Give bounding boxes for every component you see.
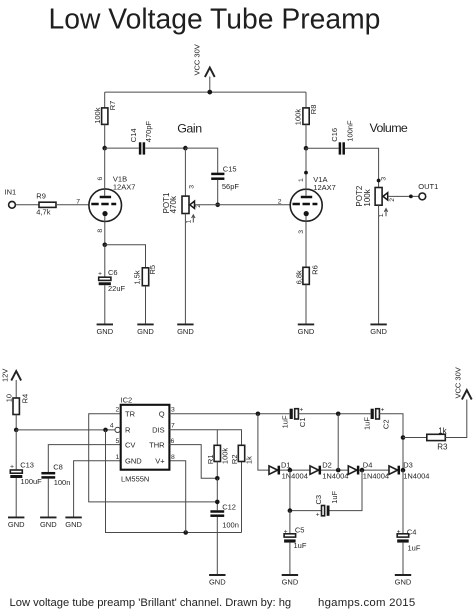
junction 12V node <box>14 428 19 433</box>
svg-text:GND: GND <box>40 520 57 529</box>
svg-text:1uF: 1uF <box>362 417 371 430</box>
svg-text:hgamps.com 2015: hgamps.com 2015 <box>318 597 415 609</box>
svg-text:C12: C12 <box>222 502 236 511</box>
diode D3 1N4004 <box>389 460 429 480</box>
svg-text:GND: GND <box>298 327 315 336</box>
wire R3 left <box>403 437 427 439</box>
svg-text:1: 1 <box>116 454 120 461</box>
connector IN1 <box>5 188 17 209</box>
wire C16 to POT2 <box>345 148 379 187</box>
resistor R1 100k <box>206 445 230 464</box>
wire IN1 to R9 <box>16 204 39 206</box>
svg-text:GND: GND <box>177 327 194 336</box>
junction V+ rail <box>183 530 188 535</box>
svg-text:+: + <box>300 407 304 414</box>
svg-text:5: 5 <box>116 438 120 445</box>
capacitor C2 1uF electrolytic <box>362 407 390 431</box>
power VCC 30V (output) <box>454 367 472 399</box>
svg-text:6,8k: 6,8k <box>294 270 303 284</box>
capacitor C4 1uF electrolytic <box>397 527 421 552</box>
svg-text:V+: V+ <box>155 457 165 466</box>
svg-text:100k: 100k <box>294 109 303 126</box>
wire R3 to VCC 30V <box>445 400 467 438</box>
svg-text:R1: R1 <box>206 455 215 465</box>
svg-text:LM555N: LM555N <box>121 474 149 483</box>
capacitor C16 100nF <box>330 120 354 155</box>
svg-text:12V: 12V <box>0 369 9 382</box>
junction wiper/OUT1 <box>409 195 413 199</box>
wire R1 top tap <box>216 430 218 446</box>
wire 12V node to reset pin <box>16 429 115 431</box>
wire Q pin 3 output <box>169 413 289 415</box>
wire Q node down to D1 <box>258 414 269 470</box>
svg-text:1,5k: 1,5k <box>132 270 141 284</box>
resistor R5 1,5k <box>132 265 156 286</box>
svg-text:1uF: 1uF <box>294 541 307 550</box>
svg-text:1: 1 <box>185 220 192 224</box>
wire node to C16 <box>306 147 339 149</box>
power 12V <box>0 369 21 398</box>
wire CV pin to C8 <box>48 445 120 472</box>
resistor R8 100k <box>294 92 318 125</box>
wire POT2 wiper to OUT1 <box>388 195 419 197</box>
wire V1A cathode to R6 <box>305 216 307 267</box>
ground (C4) <box>395 575 412 586</box>
wire cathode node to R5 <box>105 245 146 268</box>
resistor R6 6,8k <box>294 265 319 284</box>
svg-text:GND: GND <box>395 577 412 586</box>
svg-text:100n: 100n <box>54 478 71 487</box>
wire V1B cathode down <box>104 216 106 245</box>
svg-text:10: 10 <box>5 394 14 402</box>
junction cathode node <box>103 243 108 248</box>
capacitor C13 100uF electrolytic <box>10 461 42 486</box>
junction R7/C14/plate node <box>102 146 107 151</box>
svg-text:12AX7: 12AX7 <box>113 183 136 192</box>
svg-text:3: 3 <box>189 185 196 189</box>
wire C12 to GND <box>216 517 218 575</box>
svg-text:C16: C16 <box>330 128 339 142</box>
svg-text:THR: THR <box>149 440 165 449</box>
svg-text:100k: 100k <box>363 188 372 206</box>
wire D1 to D2 <box>280 469 310 471</box>
wire C1 to C2 <box>298 413 370 415</box>
svg-text:VCC 30V: VCC 30V <box>193 44 202 75</box>
diode D4 1N4004 <box>348 460 389 480</box>
svg-text:Volume: Volume <box>370 121 408 135</box>
wire R5 to GND <box>145 286 147 325</box>
svg-text:DIS: DIS <box>152 426 165 435</box>
wire C4 to GND <box>402 543 404 575</box>
svg-text:7: 7 <box>76 199 80 206</box>
wire R2 bottom to rail <box>241 462 243 533</box>
svg-text:+: + <box>284 529 288 536</box>
wire down to C12 node <box>216 478 218 510</box>
wire POT1 wiper to V1A grid <box>195 204 291 206</box>
svg-text:R9: R9 <box>36 191 46 200</box>
svg-text:C3: C3 <box>314 495 323 505</box>
wire POT1 bottom to GND <box>184 214 186 325</box>
svg-text:100n: 100n <box>222 521 239 530</box>
svg-text:2: 2 <box>116 407 120 414</box>
svg-text:Gain: Gain <box>177 122 202 136</box>
wire TR pin 2 to C12 node <box>89 414 218 502</box>
wire R7 to V1B plate <box>104 124 106 148</box>
wire node to C15 branch <box>185 148 217 173</box>
power VCC 30V (top) <box>193 44 215 94</box>
svg-text:6: 6 <box>97 177 104 181</box>
potentiometer POT1 470k <box>162 185 202 224</box>
wire R6 to GND <box>305 284 307 324</box>
svg-text:470k: 470k <box>169 195 178 213</box>
wire R8 to V1A plate <box>305 124 307 148</box>
capacitor C6 22uF electrolytic <box>98 268 125 293</box>
ground (POT2) <box>370 324 387 335</box>
svg-text:7: 7 <box>171 423 175 430</box>
wire D1/D2 node down to C3 <box>290 470 322 510</box>
wire C14 to gain pot node <box>145 147 185 149</box>
svg-text:GND: GND <box>65 520 82 529</box>
svg-text:R3: R3 <box>437 443 448 452</box>
svg-text:3: 3 <box>298 230 305 234</box>
svg-text:D2: D2 <box>322 460 332 469</box>
svg-text:2: 2 <box>389 198 396 202</box>
wire cathode node to C6 <box>104 245 106 277</box>
svg-text:R: R <box>125 426 131 435</box>
svg-text:1N4004: 1N4004 <box>322 471 348 480</box>
svg-text:R4: R4 <box>20 394 29 404</box>
junction D3/C4 node <box>401 468 406 473</box>
svg-text:R7: R7 <box>108 101 117 111</box>
wire R4 to 12V node <box>15 415 17 430</box>
wire C5 feed <box>289 511 291 534</box>
svg-text:100k: 100k <box>93 107 102 124</box>
capacitor C1 1uF electrolytic <box>281 407 307 429</box>
svg-text:C6: C6 <box>108 268 118 277</box>
potentiometer POT2 100k <box>355 177 396 218</box>
svg-text:1uF: 1uF <box>281 415 290 428</box>
svg-text:VCC 30V: VCC 30V <box>454 367 463 398</box>
resistor R2 1k <box>230 445 254 464</box>
ground (C6) <box>96 324 113 335</box>
wire R1 bottom <box>216 462 218 479</box>
connector OUT1 <box>418 182 438 200</box>
svg-text:GND: GND <box>96 327 113 336</box>
capacitor C5 1uF electrolytic <box>284 526 307 551</box>
svg-text:C2: C2 <box>381 420 390 430</box>
resistor R9 4,7k <box>36 191 56 216</box>
svg-text:R6: R6 <box>311 265 320 275</box>
reset inversion bubble <box>115 427 120 432</box>
wire POT1 top feed <box>184 148 186 196</box>
svg-text:1N4004: 1N4004 <box>282 471 308 480</box>
svg-text:TR: TR <box>125 410 136 419</box>
svg-text:GND: GND <box>282 577 299 586</box>
junction C14/POT1/C15 node <box>183 146 188 151</box>
svg-text:+: + <box>98 270 102 277</box>
wire C1 column <box>337 414 339 470</box>
svg-text:C14: C14 <box>129 128 138 142</box>
IC LM555N IC2 <box>110 396 175 484</box>
junction TR/C12 node <box>215 500 220 505</box>
svg-text:12AX7: 12AX7 <box>313 183 336 192</box>
junction R3/C2 node <box>401 435 406 440</box>
capacitor C8 100n <box>41 462 70 486</box>
wire GND pin 1 <box>74 461 121 518</box>
wire top supply rail <box>105 91 306 93</box>
svg-text:1N4004: 1N4004 <box>403 471 429 480</box>
junction C15/wiper node <box>215 203 220 208</box>
svg-text:GND: GND <box>370 327 387 336</box>
ground (R6) <box>298 324 315 335</box>
svg-text:CV: CV <box>125 440 135 449</box>
svg-text:GND: GND <box>8 520 25 529</box>
svg-text:C8: C8 <box>53 462 63 471</box>
triode V1B 12AX7 <box>89 148 136 233</box>
capacitor C3 1uF electrolytic <box>314 490 339 518</box>
svg-text:100nF: 100nF <box>345 120 354 142</box>
svg-text:2: 2 <box>278 199 282 206</box>
resistor R3 1k <box>427 427 448 452</box>
svg-text:GND: GND <box>125 457 142 466</box>
wire D2 to D4 <box>321 469 348 471</box>
wire C13 to GND <box>15 478 17 517</box>
junction C3/C5 node <box>288 508 293 513</box>
ground (C8) <box>40 517 57 528</box>
ground (C13) <box>8 517 25 528</box>
junction D2/D4/C1 node <box>336 468 341 473</box>
svg-text:C15: C15 <box>223 164 237 173</box>
svg-text:100uF: 100uF <box>21 477 43 486</box>
svg-text:C13: C13 <box>20 461 34 470</box>
svg-text:3: 3 <box>171 407 175 414</box>
ground (IC2 pin1) <box>65 517 82 528</box>
wire D4 to D3 <box>359 469 389 471</box>
capacitor C14 470pF <box>129 121 153 155</box>
svg-text:100k: 100k <box>221 448 230 465</box>
triode V1A 12AX7 <box>278 148 336 234</box>
svg-text:Low Voltage Tube Preamp: Low Voltage Tube Preamp <box>49 3 381 35</box>
ground (C12) <box>209 575 226 586</box>
svg-text:3: 3 <box>380 177 387 181</box>
ground (R5) <box>137 324 154 335</box>
wire C15 to wiper line <box>217 180 219 205</box>
wire POT2 bottom to GND <box>378 205 380 324</box>
svg-text:C1: C1 <box>298 418 307 428</box>
diode D2 1N4004 <box>310 460 348 480</box>
wire DIS pin 7 to R2 top <box>169 430 241 446</box>
wire C3 to D4/D3 node <box>330 470 363 511</box>
junction R8/C16/plate node <box>304 146 309 151</box>
wire 12V branch down to V+/R2 rail <box>106 430 242 533</box>
diode D1 1N4004 <box>269 460 308 480</box>
wire C6 to GND <box>104 285 106 324</box>
wire node to C14 <box>105 147 139 149</box>
svg-text:1: 1 <box>298 178 305 182</box>
wire R9 to V1B grid pin 7 <box>56 204 89 206</box>
svg-text:4,7k: 4,7k <box>36 208 50 217</box>
capacitor C15 56pF <box>211 164 239 191</box>
svg-text:OUT1: OUT1 <box>418 182 438 191</box>
svg-text:+: + <box>397 529 401 536</box>
wire 12V node to C13 <box>15 430 17 470</box>
svg-text:4: 4 <box>110 422 114 429</box>
svg-text:+: + <box>316 512 320 519</box>
ground (C5) <box>282 575 299 586</box>
junction 12V branch <box>103 428 108 433</box>
junction THR/R1 <box>215 476 220 481</box>
junction pin3 POT2 <box>377 179 381 183</box>
svg-text:+: + <box>10 463 14 470</box>
junction Q node <box>256 412 261 417</box>
svg-text:22uF: 22uF <box>108 284 126 293</box>
svg-text:C5: C5 <box>295 526 305 535</box>
junction C1/D2 column <box>336 412 341 417</box>
capacitor C12 100n <box>210 502 238 529</box>
svg-text:D3: D3 <box>403 460 413 469</box>
svg-text:R5: R5 <box>148 265 157 275</box>
wire C5 to GND <box>289 543 291 575</box>
svg-text:1uF: 1uF <box>330 490 339 503</box>
ground (POT1) <box>177 324 194 335</box>
svg-text:56pF: 56pF <box>222 182 240 191</box>
svg-text:D4: D4 <box>363 460 373 469</box>
svg-text:Low voltage tube preamp 'Brill: Low voltage tube preamp 'Brillant' chann… <box>10 597 292 609</box>
wire C4 feed <box>402 470 404 534</box>
svg-text:+: + <box>381 407 385 414</box>
svg-text:1uF: 1uF <box>408 544 421 553</box>
svg-text:C4: C4 <box>407 527 417 536</box>
wire THR pin 6 to R1 bottom <box>169 445 217 479</box>
svg-text:1N4004: 1N4004 <box>363 471 389 480</box>
svg-text:GND: GND <box>137 327 154 336</box>
svg-text:IN1: IN1 <box>5 188 17 197</box>
svg-text:1k: 1k <box>245 456 254 464</box>
svg-text:IC2: IC2 <box>121 396 133 405</box>
svg-text:Q: Q <box>159 410 165 419</box>
wire C2 to R3 node <box>379 414 403 470</box>
svg-text:8: 8 <box>171 454 175 461</box>
svg-text:1k: 1k <box>438 427 447 436</box>
resistor R4 10 <box>5 394 30 415</box>
svg-text:470pF: 470pF <box>144 121 153 143</box>
svg-text:R2: R2 <box>230 455 239 465</box>
wire V+ pin 8 <box>169 461 185 533</box>
junction D4/D3/C3 node <box>360 468 365 473</box>
wire C8 to GND <box>47 479 49 518</box>
svg-text:R8: R8 <box>309 105 318 115</box>
resistor R7 100k <box>93 92 117 124</box>
junction D1/D2/C3 node <box>288 468 293 473</box>
svg-text:8: 8 <box>97 229 104 233</box>
svg-text:GND: GND <box>209 577 226 586</box>
